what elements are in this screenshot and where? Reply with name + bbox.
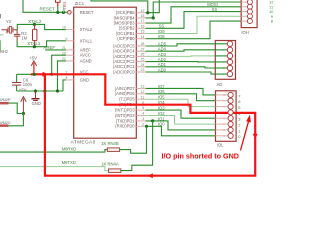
label IO2 <box>158 111 165 116</box>
pin GND stub <box>66 79 74 81</box>
svg-text:IOL: IOL <box>217 143 224 148</box>
svg-text:(AIN0)PD6: (AIN0)PD6 <box>115 91 136 96</box>
wire SCK net to IOH pin13 <box>146 0 160 13</box>
connector AD pins <box>215 41 232 77</box>
label IOL <box>217 143 224 148</box>
svg-text:GND: GND <box>80 77 89 82</box>
pin numbers 7 6 5 4 3 2 1 0 <box>238 93 241 139</box>
wire AD0 net <box>146 72 216 74</box>
wire IO7 net <box>146 88 216 95</box>
svg-text:22: 22 <box>62 57 66 61</box>
svg-text:1M: 1M <box>21 35 27 40</box>
annotation text I/O pin shorted to GND <box>162 151 239 160</box>
pin names PB5..PB0 <box>114 10 136 41</box>
svg-text:100n: 100n <box>23 82 33 87</box>
pin 1 number <box>64 8 66 12</box>
svg-text:2: 2 <box>142 122 144 126</box>
svg-text:25: 25 <box>141 58 145 62</box>
label IO4 <box>158 100 165 105</box>
label AD4 <box>158 47 167 52</box>
wire highlighted IO4 net out of IC <box>104 105 228 113</box>
svg-text:10: 10 <box>62 26 66 30</box>
connector AD box <box>215 41 235 80</box>
node IO1 junction <box>151 119 154 122</box>
svg-text:AVCC: AVCC <box>80 53 91 58</box>
svg-text:27: 27 <box>141 47 145 51</box>
svg-text:Y2: Y2 <box>6 19 12 24</box>
pin numbers 12 11 10 9 8 <box>269 0 274 24</box>
connector IOH pins <box>241 0 252 24</box>
op IC ZIC1 designator <box>75 1 85 6</box>
svg-text:28: 28 <box>141 42 145 46</box>
pin numbers 19 18 17 16 15 14 <box>141 9 145 39</box>
svg-text:IOH: IOH <box>241 30 248 35</box>
diode value text rotated (cut) <box>63 2 67 10</box>
svg-text:AREF: AREF <box>80 47 91 52</box>
node junction V1 at GND row <box>43 89 46 92</box>
svg-text:(INT1)PD3: (INT1)PD3 <box>115 108 135 113</box>
svg-text:WN2P: WN2P <box>0 97 11 102</box>
svg-text:(TXD)PD1: (TXD)PD1 <box>116 118 136 123</box>
pin name XTAL1 <box>80 38 93 43</box>
wire from pad MN2P <box>9 103 24 113</box>
node RESET junction at RN1 <box>56 11 59 14</box>
svg-text:4: 4 <box>142 112 144 116</box>
wire IO5 net <box>146 99 216 106</box>
capacitor at crystal left (cut) <box>6 30 8 34</box>
svg-text:16: 16 <box>141 24 145 28</box>
svg-text:IO5: IO5 <box>158 95 165 100</box>
pin AREF stub <box>66 49 74 51</box>
node +5V junction on highlighted net <box>33 73 36 76</box>
node AVCC junction on highlighted net <box>50 73 53 76</box>
pin name AREF <box>80 47 91 52</box>
svg-text:1: 1 <box>64 8 66 12</box>
value 16MHz (cut at left edge) <box>0 49 8 54</box>
connector IOL box <box>216 91 237 142</box>
label MOSI <box>207 2 218 7</box>
svg-text:RESET: RESET <box>80 10 94 15</box>
wire IO0 net <box>146 126 216 136</box>
pin AVCC stub <box>66 54 74 56</box>
label SS (left) <box>159 24 165 29</box>
svg-text:GND: GND <box>32 101 41 106</box>
wire AD3 net <box>146 55 216 58</box>
wire SS net to IOH pin10 <box>146 12 242 29</box>
wire GND net row <box>17 90 63 92</box>
svg-text:23: 23 <box>141 68 145 72</box>
label XTAL1 <box>27 41 41 46</box>
svg-text:9: 9 <box>66 37 68 41</box>
wire RESET net vertical from top edge <box>23 0 67 12</box>
svg-text:ZIC1: ZIC1 <box>75 1 85 6</box>
pin 22 number <box>62 57 66 61</box>
pin name GND <box>80 77 89 82</box>
label AD1 <box>158 62 167 67</box>
svg-text:12: 12 <box>141 90 145 94</box>
pin name XTAL2 <box>80 27 93 32</box>
svg-text:+5V: +5V <box>29 55 37 60</box>
wire IO8 net to IOH pin8 <box>146 21 242 39</box>
wire M8RXD net <box>0 150 107 153</box>
value 1K RN4A <box>101 162 119 167</box>
wire AD1 net <box>146 67 216 68</box>
label AD2 <box>158 57 167 62</box>
pin 21 number <box>62 46 66 50</box>
svg-text:IO6: IO6 <box>158 89 165 94</box>
node XTAL2 junction <box>33 23 36 26</box>
wire stub left edge <box>0 34 4 36</box>
pin XTAL2 stub <box>66 29 74 31</box>
label AREF <box>43 45 55 50</box>
connector IOL pin4 circle over red wire <box>228 110 233 115</box>
wire AD4 net <box>146 50 216 51</box>
node +5V junction <box>22 112 25 115</box>
wire highlighted path inside IC <box>104 74 106 104</box>
label AD5 <box>158 41 167 46</box>
svg-text:IO3: IO3 <box>158 106 165 111</box>
svg-text:1K RN4A: 1K RN4A <box>101 162 119 167</box>
svg-text:IO1: IO1 <box>158 116 165 121</box>
pin name AGND <box>80 58 92 63</box>
wire M8TXD net <box>0 167 109 171</box>
value 1K RN4B <box>101 141 119 146</box>
label AD0 <box>158 67 167 72</box>
crystal Y2 <box>2 27 18 34</box>
capacitor C6 <box>12 74 21 91</box>
value R2 1M <box>21 31 27 40</box>
resistor RN1 (body cut at top edge) <box>56 0 61 12</box>
wire AD5 net <box>146 44 216 46</box>
IC U1 ATmega8 box <box>74 7 137 138</box>
wire AVCC net <box>52 55 66 74</box>
svg-text:3: 3 <box>142 117 144 121</box>
resistor RN4B <box>107 148 119 152</box>
svg-text:24: 24 <box>141 63 145 67</box>
pin numbers inside AD <box>223 42 225 76</box>
wire highlighted VCC net (red) from +5V to IC <box>17 73 107 75</box>
svg-text:(ADC0)PC0: (ADC0)PC0 <box>113 69 135 74</box>
right side pin stubs PD7..PD0 <box>136 88 145 126</box>
svg-text:+5V: +5V <box>19 88 27 93</box>
label AD3 <box>158 52 167 57</box>
wire MOSI net to IOH pin11 <box>146 7 242 23</box>
resistor RN4A <box>109 169 121 173</box>
pin numbers 13 12 11 6 5 4 3 2 <box>141 85 145 127</box>
pad MN2P (cut at left edge) <box>0 97 11 105</box>
label IO0 <box>158 122 165 127</box>
svg-text:AD: AD <box>217 82 223 87</box>
svg-text:IO8: IO8 <box>158 34 165 39</box>
svg-text:8: 8 <box>66 76 68 80</box>
svg-text:AREF: AREF <box>43 45 55 50</box>
capacitor at crystal right <box>14 30 20 41</box>
pin RESET stub with inverting circle <box>68 11 74 15</box>
wire RESET branch 2 <box>62 4 64 12</box>
wire IO9 net to IOH pin9 <box>146 16 242 33</box>
node IO0 junction <box>145 125 148 128</box>
ground symbol GND <box>32 91 41 106</box>
wire TXD to IO1 <box>121 121 153 171</box>
connector IOL pins <box>216 95 228 136</box>
value C6 100n <box>23 77 33 87</box>
wire GND pin8 branch <box>63 80 66 91</box>
svg-text:21: 21 <box>62 46 66 50</box>
wire highlighted external short: connector to right <box>45 74 255 176</box>
wire IO1 net <box>146 121 216 130</box>
node GND junctions <box>34 89 37 92</box>
label M8RXD <box>62 147 77 152</box>
label IO5 <box>158 95 165 100</box>
pin numbers inside IOL <box>223 93 225 138</box>
wire XTAL1 net <box>17 41 66 47</box>
svg-text:(T1)PD5: (T1)PD5 <box>119 97 135 102</box>
pin names PC5..PC0 <box>113 43 135 74</box>
connector IOL circles <box>228 92 233 138</box>
label IO8 <box>158 34 165 39</box>
label IO9 <box>158 29 165 34</box>
connector IOH box (cut at top edge) <box>241 0 257 28</box>
svg-text:XTAL1: XTAL1 <box>80 38 93 43</box>
svg-text:17: 17 <box>141 19 145 23</box>
right side pin stubs PC5..PC0 <box>136 46 145 72</box>
label M8TXD <box>62 160 76 165</box>
svg-text:IO2: IO2 <box>158 111 165 116</box>
wire XTAL2 net <box>17 24 66 29</box>
pin names PD7..PD0 <box>115 86 136 129</box>
svg-text:1K RN4B: 1K RN4B <box>101 141 119 146</box>
pin numbers 28 27 26 25 24 23 <box>141 42 145 72</box>
wire MISO net to IOH pin12 <box>146 2 242 18</box>
arrow current direction right <box>43 72 48 77</box>
label RESET <box>40 6 56 11</box>
node MISO junction <box>152 16 155 19</box>
svg-text:13: 13 <box>141 85 145 89</box>
node XTAL1 junction <box>33 45 36 48</box>
wire IO3 net <box>146 110 216 118</box>
svg-text:IO0: IO0 <box>158 122 165 127</box>
wire SCK net to top edge <box>91 0 148 13</box>
svg-text:(ICP)PB0: (ICP)PB0 <box>117 36 135 41</box>
wire AD2 net <box>146 61 216 63</box>
svg-text:AD0: AD0 <box>158 67 167 72</box>
svg-text:(AIN1)PD7: (AIN1)PD7 <box>115 86 136 91</box>
annotation arrow to shorted pin <box>241 115 251 151</box>
pin 8 number <box>66 76 68 80</box>
label SS (right) <box>212 7 218 12</box>
power +5V symbol (upper) <box>29 55 37 73</box>
svg-text:15: 15 <box>141 30 145 34</box>
svg-text:19: 19 <box>141 9 145 13</box>
svg-text:14: 14 <box>141 35 145 39</box>
svg-text:18: 18 <box>141 14 145 18</box>
node RESET junction 2 <box>62 11 65 14</box>
value ATMEGA8 <box>71 140 96 146</box>
right side pin stubs PB5..PB0 <box>136 13 145 39</box>
label IO7 <box>158 84 165 89</box>
label IO3 <box>158 106 165 111</box>
svg-text:WN2C: WN2C <box>0 120 11 125</box>
label XTAL2 <box>28 19 42 24</box>
wire left edge fragment top <box>0 14 1 18</box>
svg-text:M8RXD: M8RXD <box>62 147 77 152</box>
svg-text:RESET: RESET <box>40 6 56 11</box>
svg-text:MHz: MHz <box>0 49 8 54</box>
wire left edge fragment <box>0 40 1 52</box>
svg-text:(RXD)PD0: (RXD)PD0 <box>115 124 135 129</box>
pin 7 number VCC <box>66 70 68 74</box>
wire AGND net <box>58 61 66 91</box>
svg-text:5: 5 <box>142 106 144 110</box>
pad MN2C (cut at left edge) <box>0 120 11 127</box>
label IOH <box>241 30 248 35</box>
svg-text:20: 20 <box>62 51 66 55</box>
arrow current direction left <box>148 173 153 178</box>
pin AGND stub <box>66 60 74 62</box>
arrow current direction down <box>253 134 258 139</box>
label AD <box>217 82 223 87</box>
wire from pad MN2C <box>8 114 23 126</box>
pin 10 number <box>62 26 66 30</box>
pin 9 number <box>66 37 68 41</box>
pin name AVCC <box>80 53 91 58</box>
svg-text:XTAL2: XTAL2 <box>80 27 93 32</box>
svg-text:AGND: AGND <box>80 58 92 63</box>
power +5V symbol (lower) <box>19 88 27 114</box>
svg-text:11: 11 <box>141 95 145 99</box>
svg-text:8: 8 <box>271 19 273 24</box>
wire IO2 net <box>146 116 216 125</box>
svg-text:ATMEGA8: ATMEGA8 <box>71 140 96 146</box>
wire RXD to IO0 <box>120 126 147 153</box>
pin 20 number <box>62 51 66 55</box>
pin name VCC <box>80 70 89 75</box>
svg-text:IO7: IO7 <box>158 84 165 89</box>
pin name RESET <box>80 10 94 15</box>
label IO6 <box>158 89 165 94</box>
svg-text:SS: SS <box>212 7 218 12</box>
wire AREF net <box>45 49 66 51</box>
resistor R2 <box>33 24 37 46</box>
svg-text:(INT0)PD2: (INT0)PD2 <box>115 113 135 118</box>
svg-text:M8TXD: M8TXD <box>62 160 76 165</box>
label IO1 <box>158 116 165 121</box>
pin XTAL1 stub <box>66 40 74 42</box>
crystal Y2 designator <box>6 19 12 24</box>
wire IO6 net <box>146 94 216 101</box>
node SCK junction <box>146 11 149 14</box>
svg-text:I/O pin shorted to GND: I/O pin shorted to GND <box>162 151 239 160</box>
svg-text:26: 26 <box>141 53 145 57</box>
